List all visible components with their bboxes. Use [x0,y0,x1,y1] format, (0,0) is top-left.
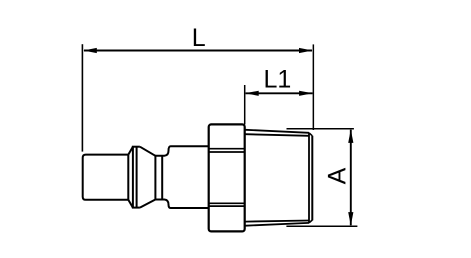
dimension L line [84,50,312,52]
hex edge line upper 2 [209,151,245,153]
groove wall right [161,156,163,200]
dimension A line [350,130,352,226]
cone taper bottom [140,200,156,208]
thread root line bottom [246,221,310,222]
hex nut body [209,124,245,231]
svg-text:A: A [323,167,351,184]
extension line left of dimension L [81,44,83,151]
hex edge line lower 2 [209,205,245,207]
thread crest line top [246,130,310,133]
cone taper top [140,147,156,156]
groove bottom flat and fillet to body bottom [155,200,209,209]
flange top edge [132,146,140,148]
arrowhead L1 right [299,91,313,96]
hex edge line lower 1 [209,202,245,204]
chamfer stem to flange bottom [128,200,133,208]
thread end chamfer top [309,133,312,136]
thread chamfer circle edge [308,133,310,223]
arrowhead L right [299,48,313,53]
arrowhead A top [348,129,353,143]
flange bottom edge [132,207,140,209]
flange inner edge line [136,146,138,208]
arrowhead L1 left [245,91,259,96]
chamfer stem to flange top [128,147,133,155]
stem end face [127,155,129,200]
svg-text:L: L [192,24,206,52]
thread end face [311,136,313,221]
hex edge line upper 1 [209,148,245,150]
groove top flat and fillet to body top [155,146,209,156]
thread root line top [246,134,310,136]
svg-text:L1: L1 [263,65,291,93]
arrowhead L left [83,48,97,53]
thread crest line bottom [246,223,310,226]
extension line left of dimension L1 [244,85,246,125]
extension line bottom of dimension A [286,225,357,227]
extension line top of dimension A [287,128,354,130]
dimension L1 line [246,92,313,94]
arrowhead A bottom [348,212,353,226]
groove wall left [154,156,156,200]
plug stem tube outline [83,155,129,200]
thread end chamfer bottom [309,220,312,223]
flange left face [132,146,134,208]
extension line right shared by L and L1 [312,44,314,130]
